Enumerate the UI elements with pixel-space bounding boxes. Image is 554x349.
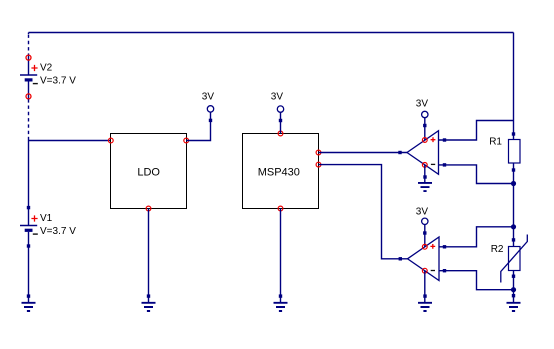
wire LDO output to 3V terminal	[186, 112, 210, 141]
label R2	[491, 244, 504, 255]
junction square OA1 minus input	[443, 163, 446, 166]
wire LDO to ground	[148, 209, 150, 303]
junction square LDO 3V	[209, 119, 212, 122]
wire OA1 minus input to R1 bottom	[439, 165, 514, 184]
ground left rail	[22, 294, 36, 311]
pin R2 top square	[512, 238, 515, 241]
node junction R2 top	[511, 224, 516, 229]
label R1	[489, 137, 502, 148]
terminal 3V OA1	[422, 111, 428, 117]
junction square OA1 output	[398, 151, 401, 154]
wire V2 top pin to plate	[28, 55, 30, 75]
wire V2 bottom plate to pin	[28, 82, 30, 99]
wire OA1 plus input to R1 top	[439, 121, 514, 141]
battery V1	[20, 226, 37, 232]
IC LDO box	[111, 134, 187, 209]
svg-text:3V: 3V	[271, 91, 284, 102]
wire top rail V2+ to right rail	[29, 32, 514, 34]
battery V2	[20, 75, 37, 82]
IC MSP430 box	[243, 134, 319, 209]
wire node A to LDO input	[29, 140, 111, 142]
resistor R1	[509, 140, 521, 164]
label V1 plus sign	[31, 215, 37, 221]
node junction R1 bottom	[511, 181, 516, 186]
wire MSP430 in1 to op-amp OA1 output	[319, 152, 408, 154]
svg-text:3V: 3V	[416, 98, 429, 109]
wire OA1 inverting pin to ground	[424, 165, 426, 182]
svg-text:3V: 3V	[416, 206, 429, 217]
pin MSP430 Vcc	[278, 131, 283, 136]
pin LDO output	[184, 138, 189, 143]
wire MSP430 Vcc to 3V terminal	[280, 112, 282, 133]
wire dashed stub below top rail	[28, 33, 30, 56]
op-amp OA1	[407, 131, 439, 175]
wire dashed V2 to node A	[28, 99, 30, 140]
terminal 3V LDO	[207, 106, 213, 112]
junction square OA1 supply	[423, 124, 426, 127]
wire V1 to ground	[28, 232, 30, 302]
label OA2 minus	[431, 270, 435, 272]
ground LDO	[142, 294, 156, 311]
wire OA2 3V supply drop	[424, 225, 426, 247]
svg-text:MSP430: MSP430	[258, 167, 300, 179]
svg-text:LDO: LDO	[137, 166, 160, 178]
pin LDO ground	[146, 206, 151, 211]
label 3V MSP430	[271, 91, 284, 102]
svg-text:V2: V2	[40, 62, 53, 73]
junction square MSP430 3V	[279, 119, 282, 122]
label V1 value	[40, 226, 76, 237]
pin OA2 inverting	[422, 268, 427, 273]
label V2 plus sign	[31, 65, 37, 71]
pin V2 bottom	[26, 94, 31, 99]
junction square OA2 plus input	[443, 245, 446, 248]
wire right rail down to R1	[513, 33, 515, 140]
pin MSP430 in1	[316, 150, 321, 155]
ground OA1	[418, 175, 432, 191]
pin R2 bottom square	[512, 275, 515, 278]
ground right rail	[507, 294, 521, 311]
junction square OA2 minus input	[443, 269, 446, 272]
label V1 minus sign	[33, 233, 38, 235]
label 3V LDO	[202, 91, 215, 102]
pin V1 bottom square	[27, 244, 30, 247]
pin R1 top square	[512, 132, 515, 135]
svg-text:R1: R1	[489, 137, 502, 148]
pin R1 bottom square	[512, 168, 515, 171]
wire MSP430 in2 to op-amp OA2 output	[319, 165, 408, 259]
svg-text:V=3.7 V: V=3.7 V	[40, 226, 76, 237]
pin OA1 inverting	[422, 163, 427, 168]
op-amp OA2	[408, 237, 440, 281]
pin OA2 noninverting	[422, 244, 427, 249]
label 3V OA2	[416, 206, 429, 217]
wire OA1 3V supply drop	[424, 116, 426, 141]
pin MSP430 in2	[316, 162, 321, 167]
node junction R2 bottom	[511, 287, 516, 292]
junction square OA2 supply	[423, 231, 426, 234]
ground MSP430	[274, 294, 288, 311]
label V2 value	[40, 75, 76, 86]
label 3V OA1	[416, 98, 429, 109]
svg-text:R2: R2	[491, 244, 504, 255]
svg-text:V1: V1	[40, 213, 53, 224]
pin OA1 noninverting	[422, 138, 427, 143]
pin V2 top	[26, 55, 31, 60]
node A junction to V1	[28, 141, 30, 226]
svg-text:3V: 3V	[202, 91, 215, 102]
wire MSP430 to ground	[280, 209, 282, 303]
svg-text:V=3.7 V: V=3.7 V	[40, 75, 76, 86]
label OA1 minus	[431, 163, 435, 165]
label V2	[40, 62, 53, 73]
wire right rail R1 to R2 to ground	[513, 163, 515, 302]
thermistor R2	[501, 235, 528, 283]
ground OA2	[418, 294, 432, 311]
wire OA2 inverting pin to ground	[424, 271, 426, 302]
junction square OA1 plus input	[443, 138, 446, 141]
pin LDO input	[108, 138, 113, 143]
label OA1 plus	[431, 137, 436, 142]
terminal 3V MSP430	[277, 106, 283, 112]
label V2 minus sign	[33, 83, 38, 85]
pin MSP430 ground	[278, 206, 283, 211]
wire OA2 minus input to R2 bottom	[439, 271, 514, 290]
label V1	[40, 213, 53, 224]
junction square OA2 output	[399, 257, 402, 260]
pin V1 top square	[27, 206, 30, 209]
label OA2 plus	[430, 244, 435, 249]
wire OA2 plus input to R2 top	[439, 227, 514, 247]
terminal 3V OA2	[422, 218, 428, 224]
